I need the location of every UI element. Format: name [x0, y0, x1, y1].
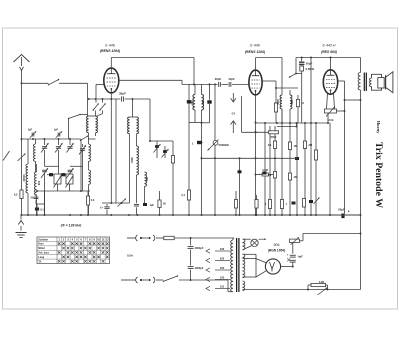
- switch S1 antenna: [48, 79, 59, 86]
- svg-text:(RENS 1264): (RENS 1264): [100, 49, 121, 53]
- capacitor C19 dark: [143, 203, 154, 207]
- svg-text:0,5: 0,5: [14, 193, 18, 197]
- wire mains caps drop: [190, 238, 192, 281]
- resistor R8 5000: [269, 131, 279, 139]
- trimmer cluster a: [154, 141, 161, 153]
- node V2 cath: [255, 122, 257, 134]
- resistor bridge 14ohm: [308, 280, 328, 295]
- resistor R18: [234, 191, 237, 215]
- inductor L7 1000: [277, 95, 282, 123]
- capacitor electrolytic b: [290, 260, 296, 262]
- resistor R12: [302, 199, 305, 208]
- resistor R15 0.5M: [300, 66, 315, 71]
- capacitor 20pF: [299, 62, 313, 66]
- wire to antenna coil: [87, 83, 89, 116]
- ground symbol: [16, 215, 27, 237]
- svg-text:E 446: E 446: [250, 44, 259, 48]
- svg-text:600: 600: [291, 99, 294, 104]
- wire grid line y99: [89, 98, 150, 100]
- wire v316: [315, 123, 317, 216]
- lamp pilot: [243, 238, 267, 246]
- wire HT bus: [111, 57, 360, 59]
- node grid line: [209, 83, 217, 85]
- wire v239: [238, 158, 242, 215]
- node v311: [310, 57, 312, 59]
- resistor R20 0.5M: [255, 169, 277, 176]
- wire B+ drop: [360, 90, 362, 290]
- taps: [206, 249, 230, 291]
- wire HV centre tap: [243, 254, 257, 258]
- svg-text:110: 110: [220, 284, 225, 288]
- svg-text:Kurz: Kurz: [38, 243, 44, 246]
- resistor R3: [274, 103, 277, 112]
- wire v283: [281, 58, 283, 216]
- wire mid link R: [70, 150, 83, 191]
- node B+: [360, 99, 362, 235]
- tube V3: [323, 70, 337, 94]
- svg-text:E 443 H: E 443 H: [323, 44, 336, 48]
- svg-text:Mittel: Mittel: [38, 247, 45, 250]
- wire V2 anode: [262, 81, 276, 123]
- speaker frame: [372, 74, 382, 90]
- resistor R17: [158, 191, 166, 215]
- svg-text:5pF: 5pF: [54, 130, 59, 132]
- wire drop 215: [214, 84, 216, 141]
- IF1 label: [191, 100, 205, 105]
- capacitor electrolytic a: [290, 255, 296, 257]
- capacitor dark 215: [213, 142, 217, 215]
- capacitor C17 dark: [192, 141, 202, 146]
- tube V2 label: [245, 44, 266, 54]
- transformer sec heater1: [243, 239, 245, 250]
- capacitor C16: [309, 200, 313, 203]
- node mains: [190, 237, 192, 239]
- svg-text:5pF: 5pF: [28, 130, 33, 132]
- inductor L2 osc coupling: [128, 117, 139, 134]
- svg-text:1M: 1M: [294, 175, 298, 179]
- resistor R7: [280, 200, 287, 209]
- wire screen bus2: [277, 123, 297, 127]
- resistor R13: [314, 150, 317, 160]
- padder C10 boxed: [66, 174, 74, 191]
- inductor OT primary: [358, 73, 360, 91]
- wire IF1 bottoms: [189, 110, 202, 123]
- wire antenna feed: [22, 82, 88, 84]
- svg-text:Ant. kurz: Ant. kurz: [38, 252, 49, 255]
- resistor R6: [268, 141, 277, 149]
- wire V3 pins: [327, 93, 335, 109]
- capacitor 10pF: [228, 77, 235, 87]
- wire V1 grid left: [96, 84, 104, 86]
- resistor R11 2M: [303, 141, 312, 149]
- capacitor C7 fixed: [47, 173, 56, 176]
- wire anode corner: [181, 80, 183, 84]
- inductor L8b: [290, 95, 294, 123]
- wire ground bus: [21, 214, 361, 216]
- speaker magnet: [378, 78, 384, 88]
- wire mid link L: [45, 150, 59, 174]
- inductor L1 antenna coil: [87, 116, 98, 139]
- svg-text:0,5A: 0,5A: [127, 254, 133, 258]
- resistor R10: [288, 173, 297, 180]
- svg-text:0,3: 0,3: [91, 198, 95, 202]
- svg-text:10pF: 10pF: [228, 77, 235, 81]
- transformer sec HV: [243, 254, 245, 278]
- node V3 top: [330, 57, 332, 59]
- wire IF1 drop: [193, 58, 195, 86]
- wire V1 top cap: [110, 58, 112, 68]
- wire l78 top: [275, 87, 298, 89]
- wire OT top: [360, 58, 362, 73]
- wire v129: [129, 134, 131, 203]
- wire V3 anode: [338, 81, 346, 101]
- svg-text:Horny: Horny: [376, 121, 381, 134]
- wire drop 209: [209, 84, 211, 99]
- resistor R19: [255, 195, 258, 216]
- inductor L10: [145, 172, 150, 203]
- trimmer C11: [41, 168, 48, 191]
- wire v297: [296, 123, 298, 216]
- wire mains L: [127, 237, 234, 239]
- svg-text:125: 125: [220, 275, 225, 279]
- node j1: [88, 98, 113, 100]
- resistor R4: [265, 200, 272, 209]
- svg-text:506: 506: [274, 243, 280, 247]
- inductor voice coil: [370, 78, 372, 87]
- switch S3 band: [97, 99, 106, 116]
- wire v305: [304, 123, 306, 216]
- node gb: [21, 214, 345, 216]
- svg-text:0,1: 0,1: [268, 173, 272, 177]
- switch S5 tuning: [80, 136, 88, 142]
- svg-text:220: 220: [220, 256, 225, 260]
- wire antenna down-lead: [21, 70, 23, 215]
- svg-text:0,1: 0,1: [268, 143, 272, 147]
- capacitor 4000pF a: [188, 246, 204, 250]
- node sb: [255, 122, 318, 133]
- wire row y191: [36, 190, 90, 192]
- capacitor C21 dark: [259, 172, 267, 177]
- resistor R14 10: [296, 95, 304, 123]
- svg-text:+: +: [287, 253, 289, 257]
- capacitor C15: [292, 202, 296, 205]
- svg-text:Trix Pentode W: Trix Pentode W: [373, 142, 384, 208]
- svg-text:TA: TA: [38, 260, 41, 263]
- wire v150: [149, 99, 151, 142]
- svg-text:(RES 964): (RES 964): [321, 50, 338, 54]
- switch S7 arrow: [118, 199, 127, 207]
- resistor R16: [171, 141, 174, 215]
- wire OT bottom: [345, 99, 361, 101]
- wire trim bus: [150, 140, 173, 142]
- wire row y202: [36, 191, 45, 215]
- wire v311: [310, 58, 312, 216]
- varcap C4: [55, 139, 63, 153]
- wire cap chain: [292, 243, 294, 267]
- wire cath bus: [242, 131, 278, 133]
- wire screen bus: [256, 122, 330, 124]
- speaker cone: [386, 72, 393, 93]
- wire v330: [329, 123, 331, 216]
- inductor IF1 primary: [193, 84, 204, 110]
- svg-text:30pF: 30pF: [119, 92, 126, 96]
- wire prim top: [233, 237, 234, 239]
- capacitor C18: [100, 204, 109, 215]
- wire mains N: [121, 279, 228, 281]
- resistor R5 0.1M: [268, 172, 277, 179]
- label Trix Pentode W: [373, 142, 384, 208]
- pot hum 50ohm: [325, 107, 337, 125]
- varcap C6: [79, 144, 86, 155]
- varcap C3: [41, 139, 49, 153]
- svg-text:4μF: 4μF: [298, 255, 303, 259]
- svg-text:50000Ω: 50000Ω: [219, 143, 230, 147]
- svg-text:240: 240: [220, 247, 225, 251]
- svg-text:600: 600: [146, 176, 149, 181]
- wire V2 cathode: [255, 95, 257, 215]
- inductor L6 600: [34, 164, 41, 215]
- switch S2 band: [93, 85, 99, 117]
- trimmer C11b: [67, 168, 74, 178]
- wire B+ return: [243, 289, 361, 291]
- capacitor 50uF: [338, 208, 350, 219]
- capacitor C9 fixed: [61, 173, 68, 176]
- resistor R2: [14, 190, 23, 199]
- tube V1: [104, 68, 119, 93]
- plug mains N: [136, 277, 155, 283]
- wire v290: [289, 123, 291, 215]
- switch S6: [289, 58, 302, 78]
- node tbus: [21, 138, 72, 140]
- core PT: [237, 238, 239, 292]
- plug mains L: [136, 235, 155, 241]
- wire trim links: [157, 148, 165, 158]
- inductor L8 600: [289, 90, 291, 95]
- wire v275: [274, 126, 276, 215]
- wire lamp low: [243, 246, 252, 250]
- svg-text:680: 680: [191, 100, 194, 105]
- label ZF: [60, 224, 82, 228]
- wire box verticals: [80, 139, 82, 191]
- wire v116: [115, 99, 117, 203]
- trimmer C1: [28, 130, 36, 138]
- switch mains: [163, 275, 178, 282]
- svg-text:300: 300: [202, 100, 205, 105]
- svg-text:1M: 1M: [294, 144, 298, 148]
- wire v265: [264, 123, 266, 215]
- label electrolytic: [287, 253, 303, 262]
- switch arrow mid: [314, 198, 320, 205]
- wire V2 aux: [241, 96, 243, 132]
- svg-text:30pF: 30pF: [215, 77, 222, 81]
- inductor L5 30000: [22, 139, 28, 215]
- capacitor C14: [295, 157, 299, 160]
- transformer sec heater2: [243, 281, 245, 291]
- inductor L3: [33, 139, 35, 172]
- node IF1: [201, 122, 210, 124]
- capacitor 4000pF b: [188, 266, 204, 270]
- capacitor C13 fixed: [35, 204, 44, 215]
- wire rect top: [300, 234, 362, 241]
- svg-text:50 Ω: 50 Ω: [327, 118, 334, 122]
- gang arrow: [231, 93, 236, 133]
- capacitor 30pF padding: [119, 92, 126, 102]
- svg-text:600: 600: [37, 180, 41, 185]
- wire grid y84: [182, 83, 249, 85]
- resistor fusible: [290, 237, 300, 245]
- wire anode drop: [337, 100, 346, 214]
- svg-text:Lang: Lang: [38, 256, 44, 259]
- svg-text:0,1: 0,1: [40, 208, 44, 212]
- trimmer on antenna lead: [18, 154, 26, 162]
- svg-text:30000: 30000: [22, 174, 26, 182]
- wire cap to osc: [132, 98, 134, 117]
- svg-text:2M: 2M: [309, 143, 313, 147]
- wire V3 top: [330, 58, 332, 70]
- tap labels: [220, 247, 225, 288]
- resistor R9: [288, 142, 297, 150]
- tube V2: [249, 70, 262, 95]
- resistor R1 0.3: [86, 191, 94, 215]
- antenna: [14, 55, 30, 71]
- svg-text:0,1: 0,1: [182, 194, 186, 197]
- wire V1 anode: [119, 79, 182, 81]
- wire L9 bottom: [134, 183, 139, 215]
- wire y203: [102, 202, 130, 204]
- wire IF1 sec bottom: [201, 110, 203, 215]
- resistor R21: [182, 123, 191, 217]
- tube V3 label: [321, 44, 338, 54]
- wire tuning bus: [22, 138, 96, 140]
- core OT: [364, 73, 366, 92]
- svg-text:1μF: 1μF: [150, 204, 155, 207]
- svg-text:5000: 5000: [271, 135, 277, 139]
- svg-text:4000pF: 4000pF: [195, 246, 204, 250]
- capacitor IF1 right: [207, 100, 211, 123]
- wire box v2: [44, 191, 46, 215]
- wire V2 top: [255, 58, 257, 70]
- wire V1 cathode down: [110, 93, 112, 203]
- node antenna junction: [21, 82, 23, 84]
- wire AVC bus: [201, 157, 298, 159]
- fuse 0.5A: [127, 236, 174, 257]
- svg-text:+: +: [348, 210, 350, 214]
- tube V4 rectifier: [265, 259, 280, 274]
- svg-text:20pF: 20pF: [306, 62, 313, 66]
- svg-text:1000: 1000: [277, 99, 280, 105]
- inductor L4: [89, 139, 91, 215]
- rectifier base: [243, 259, 267, 277]
- svg-text:E 446: E 446: [105, 44, 114, 48]
- capacitor C12: [31, 194, 39, 204]
- svg-text:150: 150: [220, 266, 225, 270]
- capacitor 30pF: [215, 77, 222, 87]
- wire v270: [269, 126, 271, 215]
- trimmer C2: [54, 130, 62, 138]
- svg-text:50μF: 50μF: [338, 208, 345, 212]
- lead break mark: [3, 151, 10, 161]
- svg-text:0,5MΩ: 0,5MΩ: [306, 67, 315, 71]
- svg-text:(RGN 1054): (RGN 1054): [268, 249, 285, 253]
- switch S4: [68, 114, 81, 139]
- padder C8 boxed: [54, 174, 62, 191]
- svg-text:ZF = 128 kHz: ZF = 128 kHz: [60, 224, 82, 228]
- trimmer cluster b: [162, 146, 169, 158]
- tube V4 label: [268, 243, 285, 253]
- wire det drop: [301, 58, 303, 124]
- svg-text:C4: C4: [232, 112, 236, 116]
- svg-text:Schalter: Schalter: [38, 238, 48, 241]
- svg-text:4000pF: 4000pF: [195, 266, 204, 270]
- capacitor IF1 left: [187, 84, 191, 122]
- wire rect out: [281, 266, 294, 268]
- svg-text:14Ω: 14Ω: [319, 280, 325, 284]
- tube V1 label: [100, 44, 121, 53]
- wire coil link: [80, 114, 88, 116]
- transformer primary: [231, 238, 233, 292]
- svg-text:6300: 6300: [131, 157, 134, 163]
- pot volume 50000: [201, 140, 230, 151]
- svg-text:(RENS 1264): (RENS 1264): [245, 50, 266, 54]
- node det: [301, 57, 303, 59]
- switch table: [37, 237, 110, 264]
- wire mains N to prim: [228, 280, 233, 292]
- inductor L9 osc: [131, 146, 139, 183]
- varcap C5: [67, 139, 74, 153]
- wire L2 bottom: [136, 134, 138, 146]
- label Horny: [376, 121, 381, 134]
